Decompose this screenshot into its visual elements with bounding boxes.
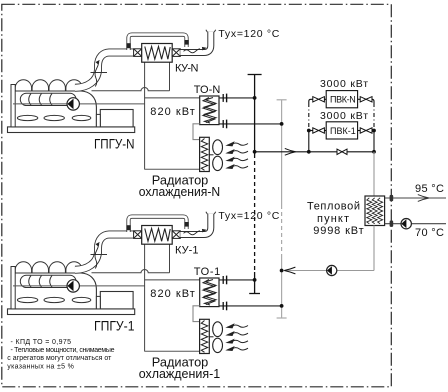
svg-text:ПВК-1: ПВК-1 [330, 126, 356, 136]
wire PVK-N row [324, 98, 326, 100]
boiler PVK-1 box [326, 122, 357, 139]
valve PVK bypass [337, 149, 347, 154]
heat point exchanger box [365, 196, 385, 226]
node TO-1 top junction [253, 278, 257, 282]
flow arrow supply [285, 148, 296, 155]
boundary crossing mark 95C [390, 195, 394, 201]
node bypass left [307, 150, 311, 154]
flow arrow 95C [418, 195, 429, 202]
pump 70C line [401, 219, 411, 229]
pump return [327, 265, 337, 275]
svg-text:ТО-1: ТО-1 [194, 266, 221, 278]
svg-text:с агрегатов могут отличаться о: с агрегатов могут отличаться от [7, 355, 112, 362]
node TO-N bottom junction [280, 122, 284, 126]
node PVK-1 right [372, 129, 376, 133]
svg-text:охлаждения-N: охлаждения-N [139, 185, 221, 199]
valve PVK-N right [360, 97, 372, 102]
flow arrow return [284, 267, 295, 274]
svg-text:3000 кВт: 3000 кВт [320, 110, 368, 122]
node bypass right [372, 150, 376, 154]
heat point coils [367, 198, 383, 224]
svg-text:Тепловой: Тепловой [307, 201, 360, 213]
boiler PVK-N box [326, 91, 357, 108]
svg-text:ГПГУ-1: ГПГУ-1 [94, 319, 135, 334]
svg-text:Тух=120 °С: Тух=120 °С [218, 28, 279, 40]
unit N group [8, 30, 282, 172]
wire 95C supply out [385, 197, 446, 199]
svg-text:820 кВт: 820 кВт [150, 106, 195, 118]
svg-text:ТО-N: ТО-N [194, 84, 221, 96]
valve PVK-1 left [313, 128, 325, 133]
node PVK-1 left [307, 129, 311, 133]
node TO-N top junction [253, 96, 257, 100]
svg-text:70 °С: 70 °С [415, 227, 444, 239]
node return junction [280, 269, 284, 273]
boundary crossing mark 70C [390, 221, 394, 227]
svg-text:ПВК-N: ПВК-N [330, 95, 356, 105]
wire PVK bypass bottom [309, 151, 374, 153]
svg-text:95 °С: 95 °С [415, 183, 444, 195]
svg-text:указанных на ±5 %: указанных на ±5 % [7, 363, 74, 370]
svg-text:820 кВт: 820 кВт [150, 288, 195, 300]
svg-text:охлаждения-1: охлаждения-1 [139, 367, 221, 381]
wire supply to PVK block [255, 151, 309, 153]
wire heat point outlet down [373, 226, 375, 271]
svg-text:3000 кВт: 3000 кВт [320, 78, 368, 90]
valve PVK-1 right [360, 128, 372, 133]
valve PVK-N left [313, 97, 325, 102]
node supply branch [253, 150, 257, 154]
svg-text:КУ-1: КУ-1 [175, 244, 199, 256]
wire heat point return to header [337, 270, 374, 272]
wire 70C return in [411, 223, 446, 225]
return header (gray bus) [277, 100, 287, 318]
wire down to heat point [373, 152, 375, 196]
PVK left riser [309, 99, 313, 152]
unit 1 group [8, 212, 282, 354]
supply header (black bus) [248, 75, 262, 294]
node TO-1 bottom junction [280, 304, 284, 308]
svg-text:- КПД ТО = 0,975: - КПД ТО = 0,975 [11, 339, 72, 346]
svg-text:9998 кВт: 9998 кВт [313, 225, 364, 237]
PVK right riser [372, 99, 374, 152]
svg-text:пункт: пункт [317, 213, 349, 225]
svg-text:- Тепловые мощности, снимаемые: - Тепловые мощности, снимаемые [11, 347, 115, 354]
svg-text:ГПГУ-N: ГПГУ-N [94, 137, 135, 152]
svg-text:КУ-N: КУ-N [175, 62, 199, 74]
svg-text:Тух=120 °С: Тух=120 °С [218, 210, 279, 222]
wire PVK-1 row [309, 130, 313, 132]
